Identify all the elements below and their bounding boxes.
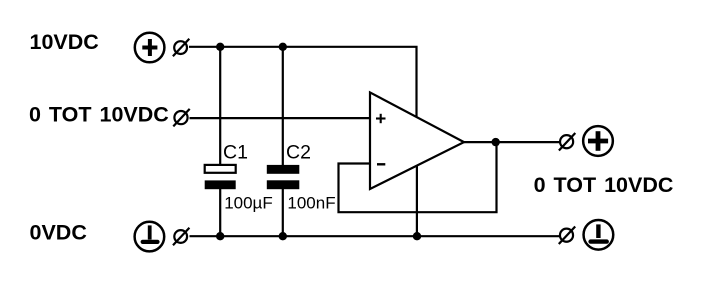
svg-text:0VDC: 0VDC	[30, 221, 87, 245]
svg-text:C1: C1	[223, 142, 248, 164]
svg-text:10VDC: 10VDC	[30, 30, 99, 54]
svg-text:C2: C2	[286, 142, 311, 164]
svg-text:0 TOT 10VDC: 0 TOT 10VDC	[534, 173, 674, 197]
svg-text:0 TOT 10VDC: 0 TOT 10VDC	[29, 103, 169, 127]
svg-text:100nF: 100nF	[287, 193, 335, 212]
svg-text:100µF: 100µF	[224, 194, 273, 213]
